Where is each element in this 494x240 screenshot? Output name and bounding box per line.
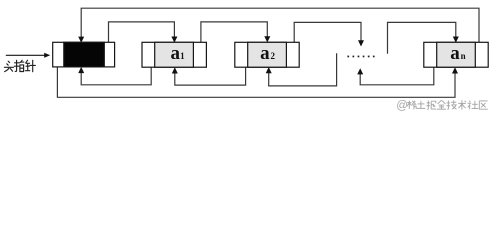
wire dots.prev to a2 — [269, 53, 337, 86]
掘 — [427, 101, 428, 110]
wire a2.prev to a1 — [175, 54, 246, 85]
svg-text:1: 1 — [180, 51, 185, 61]
head pointer arrow — [6, 53, 50, 58]
wire head.next to a1 — [109, 22, 175, 53]
svg-text:n: n — [461, 51, 466, 61]
wire head.prev to aN (bottommost circular link) — [57, 55, 455, 98]
arrowhead into a1 bottom — [172, 67, 178, 73]
arrowhead into a1 top — [171, 37, 177, 43]
node a1 — [142, 42, 206, 67]
node aN — [424, 42, 488, 67]
arrowhead into a2 top — [264, 36, 270, 42]
wire dots.next to aN — [388, 22, 456, 53]
svg-text:@: @ — [396, 100, 408, 112]
社 — [469, 101, 470, 102]
arrowhead above dots — [358, 40, 364, 46]
label a2 — [260, 43, 275, 64]
arrowhead below dots — [357, 68, 363, 74]
svg-text:a: a — [450, 43, 460, 64]
arrowhead into head top — [78, 37, 84, 43]
label a1 — [171, 43, 186, 64]
label aN — [450, 43, 465, 64]
svg-text:2: 2 — [271, 51, 276, 61]
arrowhead into aN bottom — [452, 67, 458, 73]
arrowhead into aN top — [453, 37, 459, 43]
wire a1.prev to head — [81, 54, 151, 85]
金 — [438, 100, 446, 104]
头 — [8, 61, 9, 62]
土 — [420, 101, 422, 108]
针 — [26, 60, 28, 63]
稀 — [407, 102, 411, 104]
arrowhead into a2 bottom — [266, 67, 272, 73]
ellipsis dots between a2 and aN — [347, 56, 374, 58]
区 — [479, 100, 487, 102]
arrowhead into head bottom — [78, 67, 84, 73]
svg-text:a: a — [260, 43, 270, 64]
wire aN.prev to dots — [360, 54, 434, 85]
node a2 — [235, 42, 299, 67]
指 — [15, 60, 16, 71]
技 — [447, 101, 448, 110]
svg-text:a: a — [171, 43, 181, 64]
label 头指针 (drawn strokes) — [4, 60, 35, 71]
head node — [53, 42, 115, 67]
wire a1.next to a2 — [201, 22, 267, 53]
wire aN.next to head (topmost circular link) — [81, 8, 479, 52]
watermark @稀土掘金技术社区 (drawn strokes) — [396, 100, 488, 112]
术 — [461, 100, 463, 109]
wire a2.next to dots — [294, 22, 361, 53]
